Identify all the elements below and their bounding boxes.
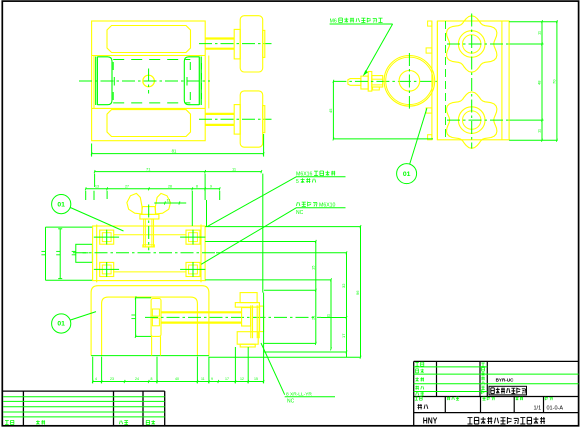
front view: screw nut details [152, 309, 159, 316]
title block: approval stamp text [418, 404, 428, 409]
side view: mounting plate [431, 21, 433, 140]
front view: main horizontal centerline [73, 252, 216, 254]
side view: upper knob centerline [447, 43, 510, 45]
svg-text:13: 13 [95, 184, 99, 188]
svg-text:8: 8 [196, 184, 198, 188]
balloon 01 (upper left) [52, 195, 71, 214]
svg-text:NC: NC [287, 398, 295, 404]
plan view: hidden slot dashed lines [113, 59, 190, 61]
svg-text:01: 01 [57, 321, 65, 328]
plan view: inner edge lines (yellow) [93, 56, 95, 109]
front view top dimension line 1 [95, 171, 262, 173]
front view: right plate edge [200, 225, 202, 283]
svg-text:28: 28 [168, 184, 172, 188]
svg-text:9: 9 [210, 184, 212, 188]
svg-text:81: 81 [172, 148, 177, 153]
svg-text:21: 21 [310, 315, 315, 320]
svg-text:45: 45 [328, 108, 333, 113]
front view: wing nut right wing [155, 193, 170, 214]
svg-text:71: 71 [146, 166, 151, 171]
plan dim: dimension line 81 [92, 153, 264, 155]
plan view: upper screw shaft [205, 37, 234, 39]
side view: boss outer circle [384, 56, 435, 107]
svg-text:BYR-UC: BYR-UC [496, 377, 515, 382]
plan view: lower shaft centerline [199, 118, 272, 120]
plan view: left bearing bracket (green) [95, 57, 97, 106]
front view: wing nut left wing [127, 193, 142, 214]
front view: roller bracket assembly [240, 293, 257, 303]
leader label: roller part note [261, 343, 285, 395]
side view: hidden line [445, 21, 447, 140]
svg-text:11: 11 [201, 377, 205, 381]
title block: left column tiny labels [415, 362, 424, 366]
plan view: slot centerline cross marks [113, 77, 115, 86]
side view: right plate line [501, 21, 503, 140]
svg-text:40: 40 [175, 377, 179, 381]
plan view: top pad plate [107, 26, 191, 53]
front view: wing nut washer [140, 214, 159, 219]
svg-text:5: 5 [296, 179, 299, 185]
plan view: fixture body outline [92, 21, 206, 141]
side view: knobs vertical centerline [471, 14, 473, 149]
front view: wing nut hub [142, 207, 156, 215]
balloon 01 (lower left) [52, 314, 71, 333]
front view: bolt centerline [148, 205, 150, 251]
svg-text:32: 32 [341, 283, 346, 288]
svg-text:96: 96 [355, 290, 360, 295]
front view: bore line lower [114, 271, 186, 273]
front view: left plate edge [96, 225, 98, 283]
front view: bolt tip [143, 245, 155, 247]
front view: horizontal shaft centerline [145, 316, 321, 318]
side view: lower knob centerline [447, 119, 510, 121]
front view: U-bracket bottom line (green) [91, 355, 209, 357]
svg-text:HNY: HNY [423, 415, 438, 425]
front view: main body [93, 226, 206, 281]
revision table [2, 390, 164, 392]
extension line right of views [262, 174, 264, 293]
title block: company name katakana [468, 417, 546, 424]
svg-text:01: 01 [57, 201, 65, 208]
plan view: lower screw shaft [205, 113, 234, 115]
plan view: hidden edge line right [201, 63, 203, 99]
svg-text:4: 4 [95, 377, 97, 381]
front view: wing nut dim line [154, 202, 186, 204]
title block: drawing title boxed [489, 386, 527, 395]
svg-text:48: 48 [536, 80, 541, 85]
front view top dimension line 2 [86, 188, 220, 190]
svg-text:01-0-A: 01-0-A [547, 406, 564, 412]
front view: green stacked plates (left) [45, 227, 47, 280]
svg-text:9: 9 [211, 377, 213, 381]
svg-text:01: 01 [403, 171, 411, 178]
plan view: upper knob hub [234, 29, 240, 59]
extension line roller left [234, 347, 236, 383]
leader label: M6X16 screw note [207, 177, 296, 227]
title block: green row lines [414, 366, 488, 368]
plan view: upper shaft centerline [199, 43, 272, 45]
side view: clamp bolt [348, 79, 361, 86]
svg-text:12: 12 [240, 377, 244, 381]
plan view: lower knob lip [263, 106, 265, 133]
front view: green dim bracket at screw [136, 297, 152, 299]
svg-text:17: 17 [341, 333, 346, 338]
svg-text:70: 70 [551, 79, 556, 84]
svg-text:NC: NC [296, 210, 304, 216]
front view: U-bracket inner [102, 297, 198, 356]
svg-text:M6X16: M6X16 [296, 171, 313, 177]
plan view: upper band line [92, 55, 206, 57]
plan dim: extension lines [91, 144, 93, 157]
plan view: vertical centerline of hole [148, 69, 150, 94]
side view: left dimension [332, 81, 334, 138]
side view: boss hub circle [399, 71, 420, 92]
svg-text:M6X10: M6X10 [319, 202, 336, 208]
side view: main block [437, 21, 509, 140]
svg-text:24: 24 [135, 377, 139, 381]
front view: bearing blocks with crosses [100, 230, 114, 244]
title block frame [413, 361, 415, 425]
plan view: bottom pad plate [107, 110, 191, 137]
front view: U-bracket outer [91, 286, 209, 356]
svg-text:27: 27 [125, 184, 129, 188]
svg-text:23: 23 [110, 377, 114, 381]
plan view: horizontal centerline [79, 80, 210, 82]
side view: lower star knob [447, 92, 497, 148]
front view: vertical screw in U-bracket [151, 299, 161, 337]
plan view: lower band line [92, 107, 206, 109]
plan view: lower knob body [240, 91, 263, 147]
side view: right dimension lines [509, 21, 558, 23]
leader label: thumb screw note [201, 208, 296, 264]
svg-text:17: 17 [225, 377, 229, 381]
title block: middle row labels [415, 397, 422, 400]
front view bottom chain dimension [93, 381, 264, 383]
front view: small arrow tick pairs [41, 250, 45, 252]
front view: clamp bolt shank [144, 219, 154, 247]
side view: horizontal centerline [333, 80, 437, 82]
svg-text:8: 8 [151, 377, 153, 381]
front view: horizontal screw shaft [161, 311, 242, 313]
balloon 01 (side view) [397, 164, 417, 184]
plan view: upper knob lip [263, 30, 265, 57]
title block: vertical strip glyphs [481, 363, 484, 367]
side view: upper star knob [447, 16, 497, 72]
svg-text:15: 15 [254, 377, 258, 381]
front view right-side vertical dims [206, 200, 208, 227]
plan view: lower knob hub [234, 105, 240, 135]
svg-text:M6: M6 [330, 18, 337, 24]
svg-text:15: 15 [310, 265, 315, 270]
plan view: upper knob body [240, 16, 263, 72]
front view: bore line upper [114, 234, 186, 236]
plan view: center hole [143, 75, 155, 87]
revision table: header labels [5, 420, 14, 424]
plan view: right bearing bracket (green) [198, 57, 200, 106]
svg-text:8 XR-LL-YR: 8 XR-LL-YR [286, 391, 312, 397]
front view: green inner plate [76, 244, 93, 262]
side view: vertical centerline of boss [408, 53, 410, 109]
svg-text:1/1: 1/1 [534, 406, 542, 412]
